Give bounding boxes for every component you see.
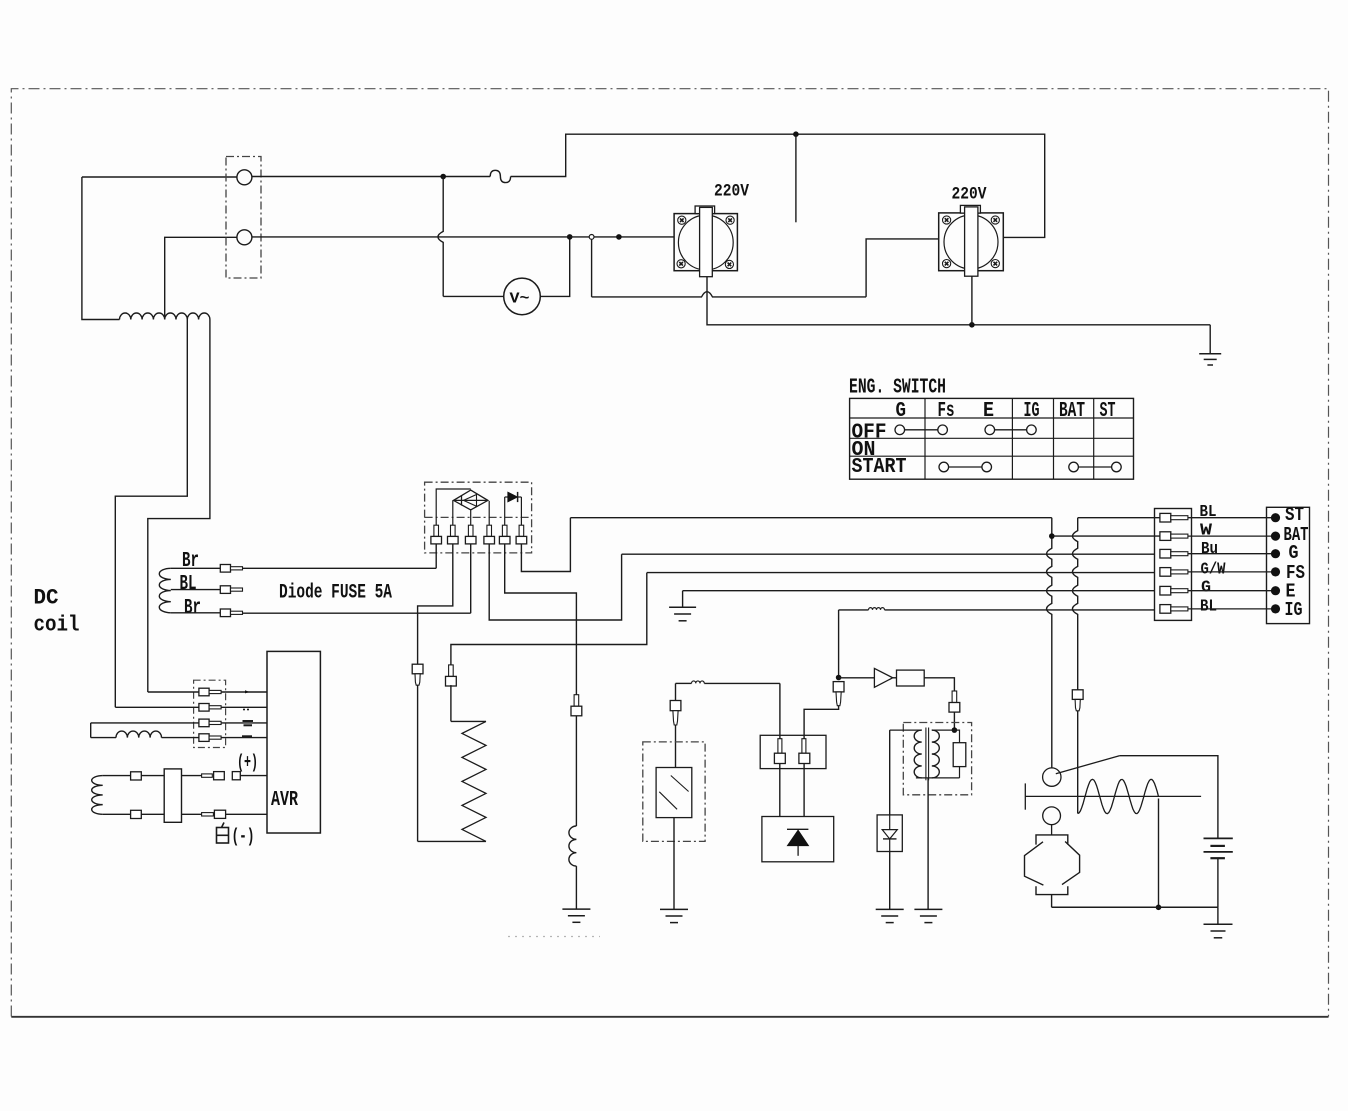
harness pin BL — [1160, 605, 1171, 614]
engine connector body — [1267, 507, 1310, 623]
wire motor to return rail — [1051, 895, 1053, 908]
wire terminal to ignition coil — [953, 712, 955, 730]
wire G harness segment — [683, 590, 1155, 592]
wire oil sensor top with choke — [676, 682, 692, 684]
START contact ST — [1112, 462, 1122, 472]
mark wire 2 — [243, 709, 245, 711]
wire stator coil end 2 down-left to AVR connector — [148, 320, 210, 693]
OFF contact E — [985, 425, 995, 435]
terminal ignition feed — [833, 682, 844, 692]
bus B lower part to relay coil — [1077, 711, 1079, 814]
wire secondary top to resistor — [932, 730, 960, 743]
wire harness pin to engine connector y=536.1 — [1188, 535, 1271, 537]
svg-text:(+): (+) — [237, 752, 258, 774]
svg-text:Br: Br — [182, 550, 199, 573]
pilot lamp inductor L1 — [569, 826, 577, 866]
receptacle 2 faceplate — [939, 213, 1004, 271]
zener diode DZ — [889, 815, 891, 830]
connector node (open circle) on lower wire — [589, 235, 594, 240]
wire motor terminal to motor — [1051, 825, 1053, 835]
ignition coil primary winding — [914, 730, 922, 778]
wire Bu to harness connector — [622, 553, 1155, 555]
oil sensor slash 1 — [671, 776, 689, 792]
AVR body — [267, 651, 320, 833]
wire bridge pin2 to diamond left — [452, 500, 454, 525]
receptacle 2 socket circle — [944, 215, 998, 269]
wire fuse to ignition coil terminal — [924, 678, 954, 691]
battery BT1 — [1204, 837, 1233, 839]
wire pin3 down to Br bottom lead — [470, 544, 472, 613]
engine switch table frame — [850, 398, 1134, 479]
brush block — [164, 769, 181, 822]
svg-text:ST: ST — [1285, 504, 1304, 526]
sense loop lower wire with coil — [91, 737, 116, 739]
receptacle 2 screw bottom-right — [991, 260, 999, 268]
receptacle 2 screw bottom-left — [943, 260, 951, 268]
svg-text:ENG. SWITCH: ENG. SWITCH — [849, 377, 946, 400]
rectifier module dashed box — [425, 482, 532, 553]
harness pin W — [1160, 532, 1171, 541]
harness pin Bu — [1160, 549, 1171, 558]
wire receptacle 1 pin down and right to ground rail — [707, 277, 1210, 325]
terminal Br bottom — [220, 609, 230, 617]
wire BL harness segment with choke — [839, 609, 869, 611]
svg-text:BL: BL — [180, 573, 197, 596]
wire relay coil end down — [1158, 799, 1160, 908]
wire inductor to ground — [575, 866, 577, 909]
connector terminal circle 2 — [237, 230, 252, 245]
wire terminal down to resistor top — [450, 685, 452, 721]
wire pin5 to lamp coil branch — [505, 544, 577, 695]
receptacle 1 screw top-right — [726, 216, 734, 224]
junction node ignition feed — [836, 675, 842, 681]
svg-text:BL: BL — [1200, 597, 1217, 616]
svg-text:G: G — [1289, 542, 1299, 564]
ground symbol battery — [1217, 907, 1219, 924]
wire relay to battery positive — [1119, 756, 1218, 839]
oil sensor slash 2 — [659, 792, 677, 810]
relay armature bar — [1024, 783, 1026, 809]
OFF link E-IG — [995, 429, 1027, 431]
wire stator coil end 1 down-left to AVR connector — [115, 320, 187, 708]
svg-text:coil: coil — [34, 613, 80, 638]
bridge diode symbol — [454, 499, 488, 501]
wire AVR terminal 3 to AVR — [221, 722, 267, 724]
field terminal square top — [131, 772, 142, 780]
CDI thyristor symbol — [787, 828, 808, 830]
wire terminal down to resistor bottom — [417, 685, 419, 841]
ignition resistor R2 — [953, 743, 966, 767]
harness pin BL — [1160, 513, 1171, 522]
oil sensor body — [656, 768, 692, 818]
wire fuse to top rail — [511, 134, 1045, 237]
wire AVR terminal 1 to AVR — [221, 691, 267, 693]
wire brush bottom to AVR (-) — [182, 813, 202, 815]
wire terminal 2 to receptacle 1 — [252, 236, 674, 238]
wire pin1 down to Br top lead — [435, 544, 437, 568]
wire Br bottom to rectifier pin 3 — [243, 612, 471, 614]
faint scan artifact dots — [508, 936, 600, 938]
wire left side down to stator coil — [82, 177, 120, 320]
sense loop upper wire — [91, 722, 199, 724]
receptacle 2 screw top-left — [943, 216, 951, 224]
field terminal square bottom — [131, 810, 142, 818]
rectifier module divider — [425, 516, 532, 518]
wire lamp branch down — [575, 716, 577, 826]
receptacle 1 key tab — [695, 206, 715, 214]
bus B upper part (hops over harness wires) — [1072, 518, 1077, 690]
receptacle 2 center bar — [965, 207, 978, 276]
rectifier pin 3 — [468, 525, 473, 536]
engine connector contact BAT — [1271, 532, 1280, 541]
OFF contact G — [895, 425, 905, 435]
drawing border bottom edge — [11, 1016, 1328, 1018]
wire receptacle 2 pin down to ground rail — [971, 276, 973, 325]
svg-text:BAT: BAT — [1059, 400, 1085, 423]
AVR terminal 2 — [199, 704, 209, 712]
wire secondary to spark ground — [927, 778, 929, 910]
receptacle 1 center bar — [700, 207, 713, 276]
svg-text:START: START — [852, 456, 907, 479]
wire ignition coil bottom rail — [916, 777, 960, 779]
START contact BAT — [1069, 462, 1079, 472]
START link BAT-ST — [1078, 466, 1111, 468]
wire pin2 down-left to resistor bottom branch — [418, 544, 453, 664]
terminal BL — [220, 586, 230, 594]
fuse F1 (breaker S-bump) — [490, 170, 510, 182]
junction node bus A / W wire — [1049, 533, 1055, 539]
wire zener to ground — [889, 852, 891, 910]
svg-text:IG: IG — [1285, 599, 1303, 621]
wire harness pin to engine connector y=608.9 — [1188, 608, 1271, 610]
receptacle 1 faceplate — [674, 214, 737, 271]
voltmeter V~ body — [504, 278, 541, 315]
junction node receptacle 2 pin — [969, 322, 975, 328]
engine connector contact FS — [1271, 567, 1280, 576]
terminal resistor top branch — [449, 665, 454, 677]
junction node starter return — [1156, 905, 1162, 911]
table column line 3 — [1053, 398, 1055, 479]
svg-text:AVR: AVR — [271, 789, 298, 812]
junction node on top rail — [793, 131, 799, 137]
harness pin G/W — [1160, 568, 1171, 577]
wire BL down to ignition node — [838, 610, 840, 678]
wire W to harness connector — [1052, 535, 1160, 537]
engine connector contact IG — [1271, 604, 1280, 613]
field winding coil — [92, 776, 103, 815]
starter return rail — [1052, 906, 1218, 908]
bridge rectifier diamond — [454, 490, 488, 510]
receptacle 1 screw bottom-right — [725, 260, 733, 268]
wire harness pin to engine connector y=553.7 — [1188, 553, 1271, 555]
DC coil winding — [159, 568, 171, 613]
junction node voltmeter branch — [567, 234, 573, 240]
table column line 4 — [1093, 398, 1095, 479]
terminal oil sensor — [670, 701, 681, 711]
svg-text:Br: Br — [184, 597, 201, 620]
harness pin G — [1160, 586, 1171, 595]
START link Fs-E — [949, 466, 982, 468]
wire CDI terminal left down — [779, 764, 781, 817]
engine connector contact ST — [1271, 513, 1280, 522]
svg-text:E: E — [983, 400, 994, 423]
wire diode D2 left to pin5 — [504, 497, 506, 525]
connector terminal circle 1 — [237, 170, 252, 185]
table row line 2 — [850, 437, 1134, 439]
sense loop left end — [90, 723, 92, 738]
wire bridge pin1 to diamond top — [436, 489, 471, 525]
wire G/W jog left — [451, 573, 647, 665]
wire CDI terminal right down — [803, 764, 805, 817]
ignition coil secondary winding — [932, 730, 940, 778]
wire terminal jog to CDI — [804, 706, 839, 739]
wire BL pin segment — [1078, 517, 1160, 519]
junction node on lower wire — [616, 234, 622, 240]
svg-text:G: G — [1201, 579, 1211, 598]
rectifier pin 4 — [487, 525, 492, 536]
engine connector contact G — [1271, 549, 1280, 558]
wire junction down to voltmeter (hop over lower wire) — [438, 177, 443, 297]
START contact Fs — [939, 462, 949, 472]
engine connector contact E — [1271, 586, 1280, 595]
relay switch arm — [1056, 756, 1120, 774]
svg-text:BL: BL — [1200, 503, 1217, 522]
CDI upper box — [760, 735, 826, 768]
table row line 3 — [850, 455, 1134, 457]
rectifier pin 2 — [451, 525, 456, 536]
receptacle 1 screw top-left — [678, 216, 686, 224]
sense loop lower wire right — [162, 737, 199, 739]
svg-text:Fs: Fs — [938, 400, 955, 423]
OFF contact Fs — [938, 425, 948, 435]
rectifier pin 1 — [434, 525, 439, 536]
receptacle 2 key tab — [960, 205, 980, 213]
wire terminal to oil sensor box — [675, 725, 677, 768]
svg-text:220V: 220V — [952, 184, 987, 204]
stator main winding coil — [120, 313, 210, 319]
wire branch down-right to receptacle 2 (hop over receptacle 1 pin) — [591, 239, 593, 297]
AVR terminal 3 — [199, 719, 209, 727]
ground symbol pilot lamp — [562, 908, 590, 910]
starter motor body — [1025, 842, 1044, 885]
wire Br top to rectifier pin 1 — [243, 567, 437, 569]
svg-text:Bu: Bu — [1201, 540, 1218, 559]
svg-text:DC: DC — [34, 586, 59, 611]
wire resistor bottom — [959, 767, 961, 778]
rectifier pin 5 — [502, 525, 507, 536]
lamp coil L2 — [116, 731, 162, 738]
wire Br top lead — [171, 567, 221, 569]
harness connector body — [1155, 509, 1192, 621]
starter motor terminal circle — [1043, 807, 1061, 825]
CDI lower box — [762, 817, 834, 862]
resistor R1 bottom lead — [418, 840, 486, 842]
receptacle 2 screw top-right — [991, 216, 999, 224]
START contact E — [982, 462, 992, 472]
terminal lamp branch — [574, 695, 579, 707]
wire pin6 jog up to charge output — [521, 518, 570, 572]
wire stator coil tap up to connector terminal 2 — [165, 237, 237, 319]
bus A down to relay contact (hops over harness wires) — [1047, 518, 1052, 768]
wire from connector terminal 1 to left — [82, 176, 237, 178]
ground symbol spark plug — [914, 908, 942, 910]
junction node on top output wire — [440, 174, 446, 180]
field winding top wire — [103, 775, 165, 777]
ground symbol G wire — [682, 591, 684, 608]
output connector dashed box — [226, 157, 261, 279]
resistor R1 top lead — [451, 720, 486, 722]
wire Br bottom lead — [171, 612, 221, 614]
ignition coil dashed box — [903, 723, 971, 795]
AVR connector dashed box — [194, 680, 226, 747]
rectifier pin 6 — [519, 525, 524, 536]
OFF link G-Fs — [905, 429, 938, 431]
wire to voltmeter left — [443, 295, 504, 297]
AVR terminal 4 — [199, 734, 209, 742]
relay armature line — [1025, 795, 1201, 797]
wire harness pin to engine connector y=571.9 — [1188, 571, 1271, 573]
wire oil sensor branch down — [675, 683, 677, 700]
svg-text:(-): (-) — [232, 826, 255, 848]
table column line 2 — [1011, 398, 1013, 479]
wire zener branch down — [889, 730, 891, 815]
ignition diode D3 — [839, 677, 875, 679]
terminal resistor bottom branch — [412, 664, 423, 674]
wire bridge pin4 to diamond right — [488, 501, 490, 525]
resistor R1 zigzag — [462, 721, 486, 841]
AVR terminal 1 — [199, 688, 209, 696]
oil sensor dashed box — [643, 742, 705, 842]
OFF contact IG — [1027, 425, 1037, 435]
charging diode D2 — [505, 496, 508, 498]
relay coil winding — [1078, 779, 1159, 813]
svg-text:V~: V~ — [510, 291, 530, 308]
terminal Br top — [220, 565, 230, 573]
wire oil sensor right to CDI — [779, 683, 781, 738]
receptacle 1 screw bottom-left — [677, 260, 685, 268]
wire charge output to node A — [570, 517, 1051, 519]
wire G/W harness segment — [647, 572, 1155, 574]
svg-text:Diode FUSE 5A: Diode FUSE 5A — [279, 581, 392, 604]
CDI terminal left — [778, 739, 782, 754]
wire primary top to zener branch — [890, 729, 922, 731]
svg-text:G/W: G/W — [1201, 561, 1227, 580]
stub wire down from top rail — [795, 134, 797, 222]
wire terminal 1 to fuse — [252, 176, 490, 178]
svg-text:ST: ST — [1100, 400, 1116, 423]
svg-text:G: G — [896, 400, 907, 423]
junction node ignition coil input — [952, 727, 958, 733]
mark wire 1 — [245, 690, 250, 693]
relay contact circle — [1043, 768, 1061, 786]
table row line 1 — [850, 417, 1134, 419]
svg-text:W: W — [1200, 521, 1213, 540]
wire diode D2 right to pin6 — [520, 497, 522, 525]
wire pin4 jog to Bu wire — [489, 544, 621, 620]
ignition fuse F2 — [893, 677, 897, 679]
label bai (-) — [217, 828, 229, 844]
ground symbol top right — [1209, 325, 1211, 354]
ground symbol oil sensor — [660, 908, 688, 910]
receptacle 1 socket circle — [678, 215, 733, 270]
wire harness pin to engine connector y=517.7 — [1188, 517, 1271, 519]
ignition coil core — [925, 728, 927, 781]
wire AVR terminal 4 to AVR — [221, 737, 267, 739]
mark wire 3 — [243, 720, 254, 722]
table column line 1 — [924, 398, 926, 479]
wire BL lead — [171, 589, 221, 591]
svg-text:220V: 220V — [714, 182, 749, 202]
zener module box — [877, 815, 902, 852]
field winding bottom wire — [103, 813, 165, 815]
wire harness pin to engine connector y=590.7 — [1188, 590, 1271, 592]
wire bridge pin3 to diamond bottom — [470, 510, 472, 525]
wire voltmeter right up to lower wire — [540, 237, 569, 297]
terminal ignition coil — [952, 691, 957, 703]
ground symbol zener — [876, 908, 904, 910]
mark wire 4 — [242, 735, 252, 737]
wire oil sensor to ground — [673, 818, 675, 910]
wire AVR terminal 2 to AVR — [221, 706, 267, 708]
wire brush top to AVR (+) — [182, 775, 202, 777]
starter motor top bracket — [1036, 835, 1068, 845]
svg-text:IG: IG — [1024, 400, 1040, 423]
CDI terminal right — [802, 739, 806, 754]
starter motor bottom bracket — [1036, 886, 1068, 894]
terminal on bus B — [1072, 690, 1083, 700]
